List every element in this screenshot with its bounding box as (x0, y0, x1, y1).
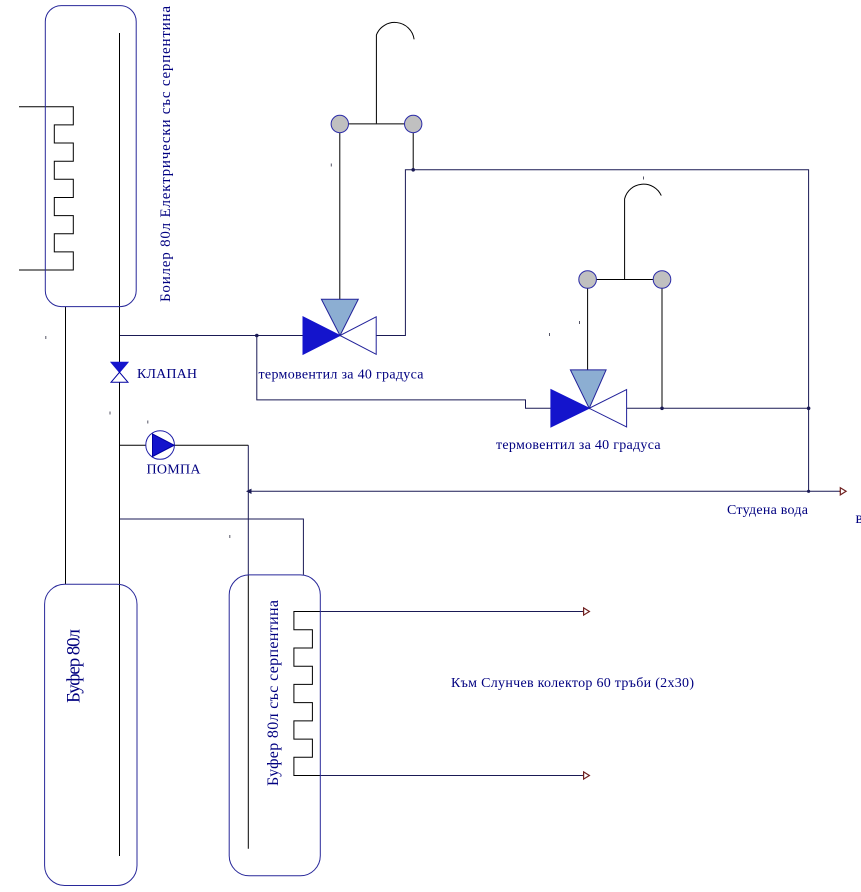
svg-text:Буфер 80л със серпентина: Буфер 80л със серпентина (265, 600, 282, 786)
svg-text:термовентил за 40 градуса: термовентил за 40 градуса (259, 368, 425, 383)
svg-text:ПОМПА: ПОМПА (147, 463, 202, 478)
svg-text:Буфер 80л: Буфер 80л (64, 628, 85, 703)
svg-text:термовентил за 40 градуса: термовентил за 40 градуса (496, 438, 661, 453)
svg-text:в: в (856, 510, 861, 527)
svg-text:Студена вода: Студена вода (727, 503, 809, 518)
svg-text:КЛАПАН: КЛАПАН (137, 367, 197, 382)
svg-text:Към Слунчев колектор 60 тръби: Към Слунчев колектор 60 тръби (2x30) (451, 676, 694, 691)
svg-text:Боилер 80л Електрически със се: Боилер 80л Електрически със серпентина (158, 6, 174, 302)
